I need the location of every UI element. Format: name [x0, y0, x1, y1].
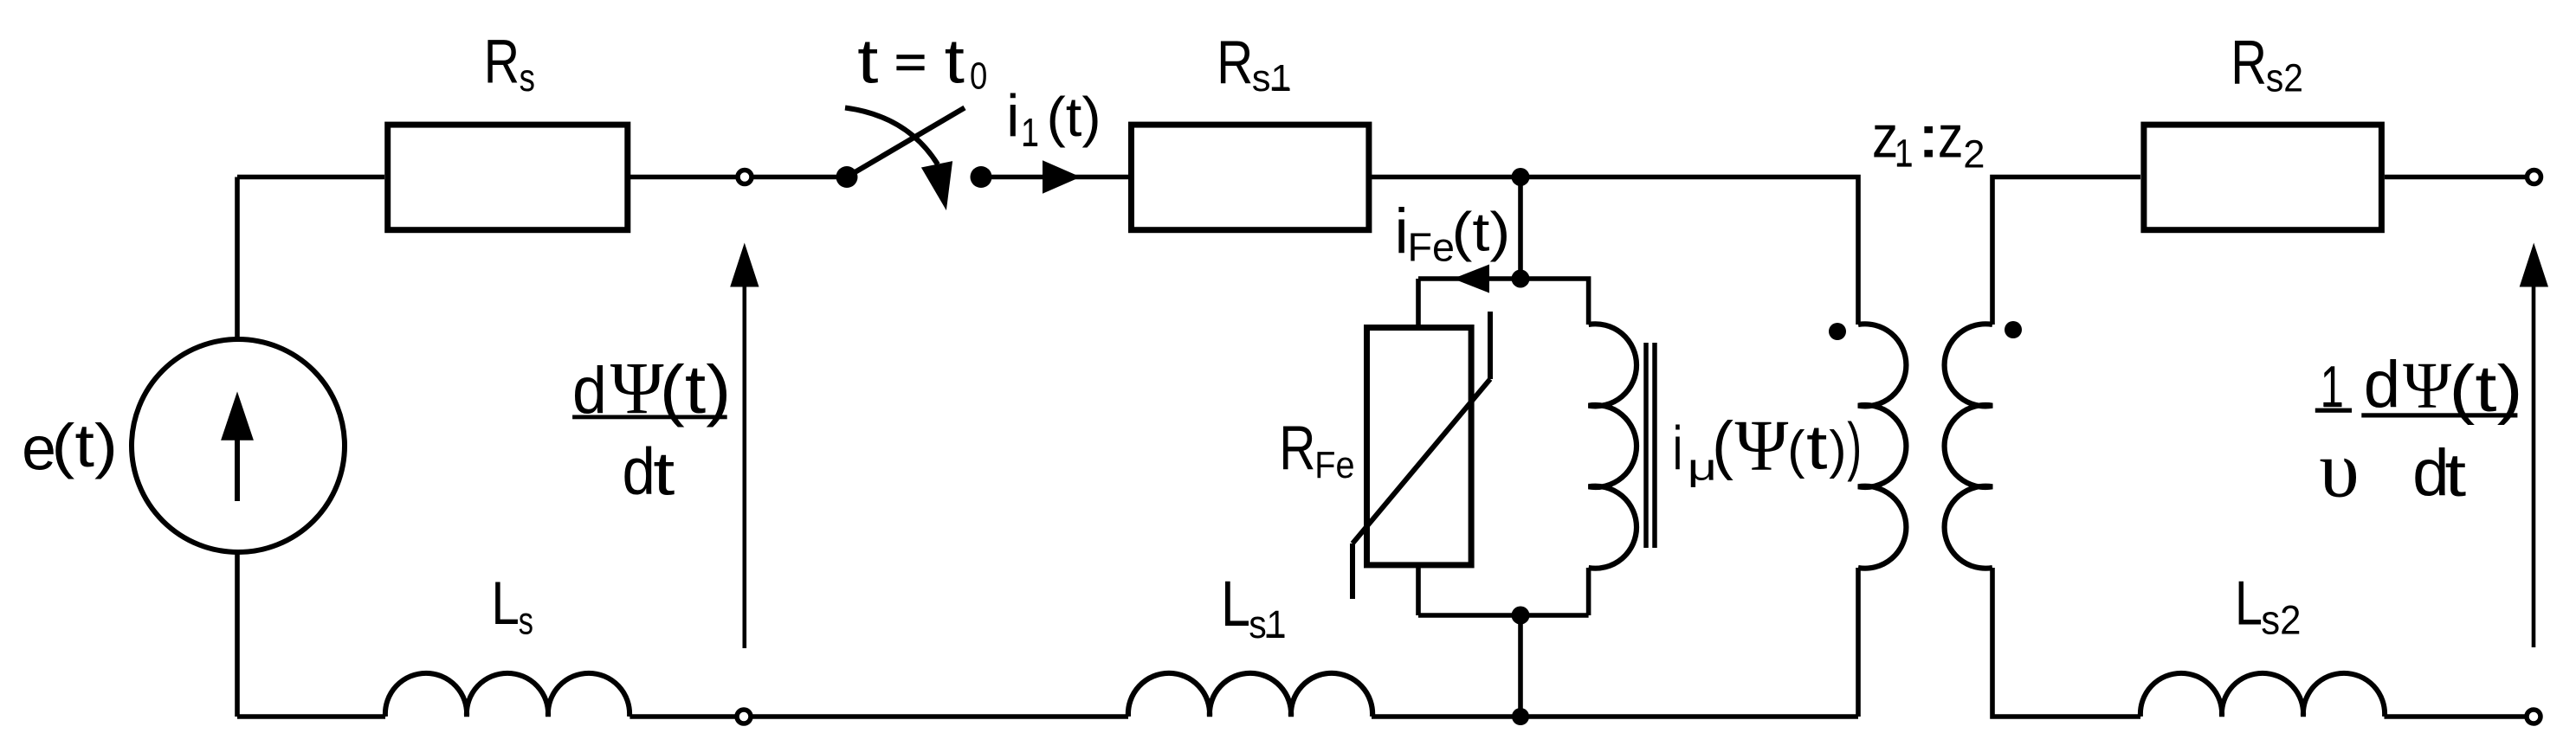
svg-text:): ) — [1829, 420, 1846, 479]
svg-text:(t): (t) — [660, 351, 732, 428]
svg-text:υ: υ — [2319, 425, 2359, 514]
svg-text:t: t — [2444, 441, 2466, 509]
svg-text:z: z — [1938, 103, 1964, 170]
svg-text:): ) — [1847, 409, 1862, 482]
svg-text:Ψ: Ψ — [610, 346, 664, 429]
svg-text:Fe: Fe — [1314, 444, 1354, 486]
svg-text:s1: s1 — [1249, 602, 1286, 646]
svg-text:1: 1 — [1895, 131, 1913, 175]
svg-text:(t): (t) — [2449, 352, 2522, 426]
svg-text:Ψ: Ψ — [1735, 405, 1789, 486]
svg-text:s2: s2 — [2266, 55, 2303, 100]
svg-text:s: s — [520, 57, 535, 100]
svg-text:d: d — [2412, 436, 2450, 510]
svg-text:s1: s1 — [1252, 58, 1292, 100]
svg-text:1: 1 — [2321, 355, 2344, 420]
svg-text:L: L — [2235, 569, 2263, 639]
svg-text:(t): (t) — [1047, 86, 1101, 148]
svg-text:t: t — [653, 440, 675, 508]
svg-text:i: i — [1395, 196, 1409, 267]
svg-text:d: d — [2364, 348, 2401, 421]
svg-text:s: s — [519, 601, 533, 643]
svg-text:t: t — [1806, 412, 1828, 482]
svg-text:t: t — [857, 27, 878, 96]
svg-text:R: R — [1279, 414, 1315, 483]
svg-text:(t): (t) — [51, 412, 118, 480]
svg-text:R: R — [484, 28, 520, 97]
svg-text:Fe: Fe — [1408, 225, 1455, 270]
svg-text:d: d — [572, 354, 607, 428]
svg-text:R: R — [2231, 28, 2267, 97]
svg-text:i: i — [1006, 83, 1019, 150]
svg-text:L: L — [491, 569, 520, 637]
svg-text:2: 2 — [1963, 132, 1985, 177]
svg-text:i: i — [1673, 414, 1683, 483]
svg-text:(t): (t) — [1451, 202, 1510, 262]
svg-text:d: d — [623, 435, 655, 509]
svg-text:1: 1 — [1021, 110, 1039, 155]
svg-text:R: R — [1217, 29, 1253, 97]
svg-text:(: ( — [1712, 408, 1733, 481]
svg-text:0: 0 — [970, 55, 987, 97]
svg-text:L: L — [1221, 568, 1250, 640]
svg-text:Ψ: Ψ — [2403, 350, 2451, 422]
svg-text:s2: s2 — [2261, 597, 2301, 643]
svg-text:(: ( — [1787, 420, 1804, 479]
svg-text:t: t — [945, 27, 965, 96]
